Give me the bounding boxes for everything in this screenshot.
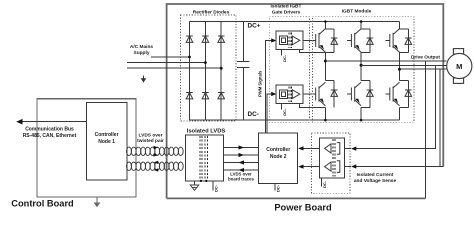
lower freewheel diode phase 1	[333, 81, 335, 108]
isolation barrier (sense)	[333, 139, 335, 176]
AC mains wire L1	[151, 56, 190, 58]
junction: AC line 3 to leg	[220, 67, 223, 70]
svg-text:Node 1: Node 1	[98, 139, 115, 145]
svg-text:Power Board: Power Board	[274, 203, 332, 213]
svg-text:DC+: DC+	[248, 22, 261, 29]
upper collector bracket phase 2	[361, 28, 370, 30]
feedback arrowhead B	[351, 164, 356, 168]
LVDS board-trace wire 4	[223, 169, 258, 171]
phase 3 mid leg wire	[399, 53, 401, 81]
twisted pair wire row 1	[127, 147, 184, 155]
drive output wire phase 2	[361, 64, 446, 66]
upper emitter bracket phase 1	[325, 52, 334, 54]
junction: phase 2 on DC+ rail	[360, 20, 363, 23]
AC mains wire L3	[127, 67, 221, 69]
lower freewheel diode phase 2	[369, 81, 371, 108]
junction: phase 3 node	[398, 68, 401, 71]
lower freewheel diode phase 3	[407, 81, 409, 108]
isolated LVDS box	[186, 135, 224, 181]
LVDS board-trace wire 2	[223, 154, 258, 156]
lower IGBT Q6 gate stub	[385, 93, 390, 95]
PWM wire to gate driver 1	[265, 41, 272, 134]
phase 2 bottom leg wire	[360, 108, 362, 121]
DC- ground stub under sense box	[321, 178, 323, 187]
rectifier bottom diode D6	[218, 93, 225, 99]
gate driver U1	[276, 31, 303, 49]
upper IGBT Q2	[351, 29, 361, 52]
svg-text:DC-: DC-	[248, 111, 259, 118]
svg-text:LVDS over: LVDS over	[139, 133, 163, 139]
rectifier leg 1 wire	[189, 22, 191, 121]
svg-text:twisted pair: twisted pair	[137, 138, 164, 144]
phase 3 bottom leg wire	[399, 108, 401, 121]
lower IGBT Q5 gate stub	[347, 93, 352, 95]
isolation amplifier A1	[325, 143, 340, 155]
earth ground under LVDS box	[190, 181, 199, 190]
LVDS board-trace wire 3	[223, 162, 258, 164]
junction: AC line 2 to leg	[204, 61, 207, 64]
svg-text:IGBT Module: IGBT Module	[342, 8, 372, 14]
rectifier top diode D1	[186, 36, 193, 42]
upper IGBT Q3 gate stub	[385, 40, 390, 42]
controller node 2	[259, 133, 298, 184]
DC- ground stub under gate driver U2	[280, 103, 282, 109]
svg-text:A/C Mains: A/C Mains	[130, 44, 154, 50]
DC- ground stub under LVDS box	[212, 181, 214, 191]
lower IGBT Q4	[316, 82, 326, 105]
phase 1 mid leg wire	[324, 53, 326, 81]
feedback arrowhead A	[351, 147, 356, 151]
upper IGBT Q2 gate stub	[347, 40, 352, 42]
lower emitter bracket phase 3	[400, 107, 409, 109]
gate driver U1 gate output wire	[303, 40, 316, 42]
rectifier diodes dashed box	[181, 15, 237, 121]
gate driver U2 gate output wire	[303, 93, 316, 95]
DC- rail wire	[190, 119, 400, 121]
upper freewheel diode phase 3	[407, 29, 409, 53]
sense output wire 1 to node 2	[302, 147, 319, 149]
svg-text:Isolated IGBT: Isolated IGBT	[271, 3, 302, 9]
upper collector bracket phase 1	[325, 28, 334, 30]
isolation barrier (gate driver U1)	[289, 33, 291, 48]
feedback tap wire C	[424, 61, 426, 198]
svg-text:DC-: DC-	[214, 184, 219, 192]
lower collector bracket phase 1	[325, 80, 334, 82]
communication bus arrowhead	[16, 119, 22, 125]
svg-text:Isolated LVDS: Isolated LVDS	[187, 129, 226, 135]
upper emitter bracket phase 3	[400, 52, 409, 54]
lower collector bracket phase 3	[400, 80, 409, 82]
gate drivers dashed box	[269, 17, 309, 122]
DC- ground stub under gate driver U1	[280, 50, 282, 56]
svg-text:Rectifier Diodes: Rectifier Diodes	[193, 9, 230, 15]
upper collector bracket phase 3	[400, 28, 409, 30]
drive output wire phase 1	[325, 60, 446, 62]
IGBT phase 2 top stub wire	[360, 22, 362, 30]
feedback tap wire A	[355, 65, 435, 148]
sense inner box	[319, 138, 344, 178]
gate driver U1 emitter return wire	[300, 50, 326, 53]
svg-text:Communication Bus: Communication Bus	[25, 127, 74, 133]
twisted pair direction arrows row 2	[154, 161, 159, 164]
svg-text:Drive Output: Drive Output	[411, 54, 440, 60]
sense input stubs from feedback	[345, 147, 351, 149]
isolation barrier (gate driver U2)	[289, 86, 291, 102]
DC+ rail wire	[190, 21, 400, 23]
twisted pair direction arrows row 1	[154, 146, 159, 149]
rectifier top diode D2	[202, 36, 209, 42]
controller node 1	[87, 103, 127, 181]
twisted pair wire row 2	[127, 162, 184, 170]
upper freewheel diode phase 1	[333, 29, 335, 53]
IGBT phase 3 top stub wire	[399, 22, 401, 30]
lower IGBT Q5	[351, 82, 361, 105]
drive output wire phase 3	[400, 68, 447, 70]
svg-text:and Voltage Sense: and Voltage Sense	[354, 178, 397, 184]
lower collector bracket phase 2	[361, 80, 370, 82]
junction dots on LVDS box bottom	[200, 180, 202, 182]
phase 1 bottom leg wire	[324, 108, 326, 121]
gate driver U2	[276, 85, 303, 104]
sense output wire 2 to node 2	[302, 166, 319, 168]
LVDS board-trace wire 1	[223, 147, 258, 149]
upper emitter bracket phase 2	[361, 52, 370, 54]
svg-text:M: M	[456, 62, 462, 71]
DC- ground stub under controller node 2	[274, 184, 276, 191]
junction: phase 1 on DC- rail	[324, 119, 327, 122]
lower IGBT Q6	[390, 82, 400, 105]
junction: phase 1 node	[324, 60, 327, 63]
IGBT phase 1 top stub wire	[324, 22, 326, 30]
svg-text:DC-: DC-	[322, 180, 327, 188]
svg-text:DC-: DC-	[282, 54, 287, 62]
rectifier bottom diode D5	[202, 93, 209, 99]
junction: phase 1 on DC+ rail	[324, 20, 327, 23]
rectifier top diode D3	[218, 36, 225, 42]
upper freewheel diode phase 2	[369, 29, 371, 53]
junction: phase 2 on DC- rail	[360, 119, 363, 122]
isolated current and voltage sense dashed box	[312, 133, 351, 193]
svg-text:Supply: Supply	[134, 50, 150, 56]
motor M	[447, 49, 472, 84]
control board outline	[37, 99, 136, 197]
svg-text:Node 2: Node 2	[270, 154, 287, 160]
isolation barrier (LVDS box)	[200, 136, 208, 181]
earth arrow below AC mains	[143, 76, 145, 80]
rectifier bottom diode D4	[186, 93, 193, 99]
svg-text:board traces: board traces	[228, 177, 254, 182]
isolation amplifier A2	[325, 161, 340, 173]
svg-text:Gate Drivers: Gate Drivers	[272, 9, 301, 15]
ground arrow under control board	[94, 198, 101, 208]
DC bus capacitor	[237, 22, 250, 121]
junction: AC line 1 to leg	[188, 56, 191, 59]
svg-text:Control Board: Control Board	[11, 199, 74, 209]
upper IGBT Q1	[316, 29, 326, 52]
svg-text:DC-: DC-	[282, 108, 287, 116]
communication bus wire	[21, 121, 87, 123]
svg-text:Isolated Current: Isolated Current	[357, 172, 394, 178]
svg-text:Controller: Controller	[95, 132, 119, 138]
svg-text:DC-: DC-	[275, 184, 280, 192]
power board outline	[167, 4, 444, 198]
svg-text:PWM Signals: PWM Signals	[258, 70, 263, 97]
rectifier leg 3 wire	[220, 22, 222, 121]
PWM wire to gate driver 2	[267, 94, 273, 133]
junction: phase 2 node	[360, 64, 363, 67]
upper IGBT Q3	[390, 29, 400, 52]
gate driver U2 emitter return wire	[300, 103, 326, 107]
phase 2 mid leg wire	[360, 53, 362, 81]
IGBT module dashed box	[313, 17, 415, 122]
svg-text:RS-485, CAN, Ethernet: RS-485, CAN, Ethernet	[23, 133, 77, 139]
AC mains wire L2	[127, 62, 206, 64]
rectifier leg 2 wire	[204, 22, 206, 121]
lower emitter bracket phase 2	[361, 107, 370, 109]
feedback tap wire B	[439, 69, 441, 166]
svg-text:Controller: Controller	[266, 147, 290, 153]
